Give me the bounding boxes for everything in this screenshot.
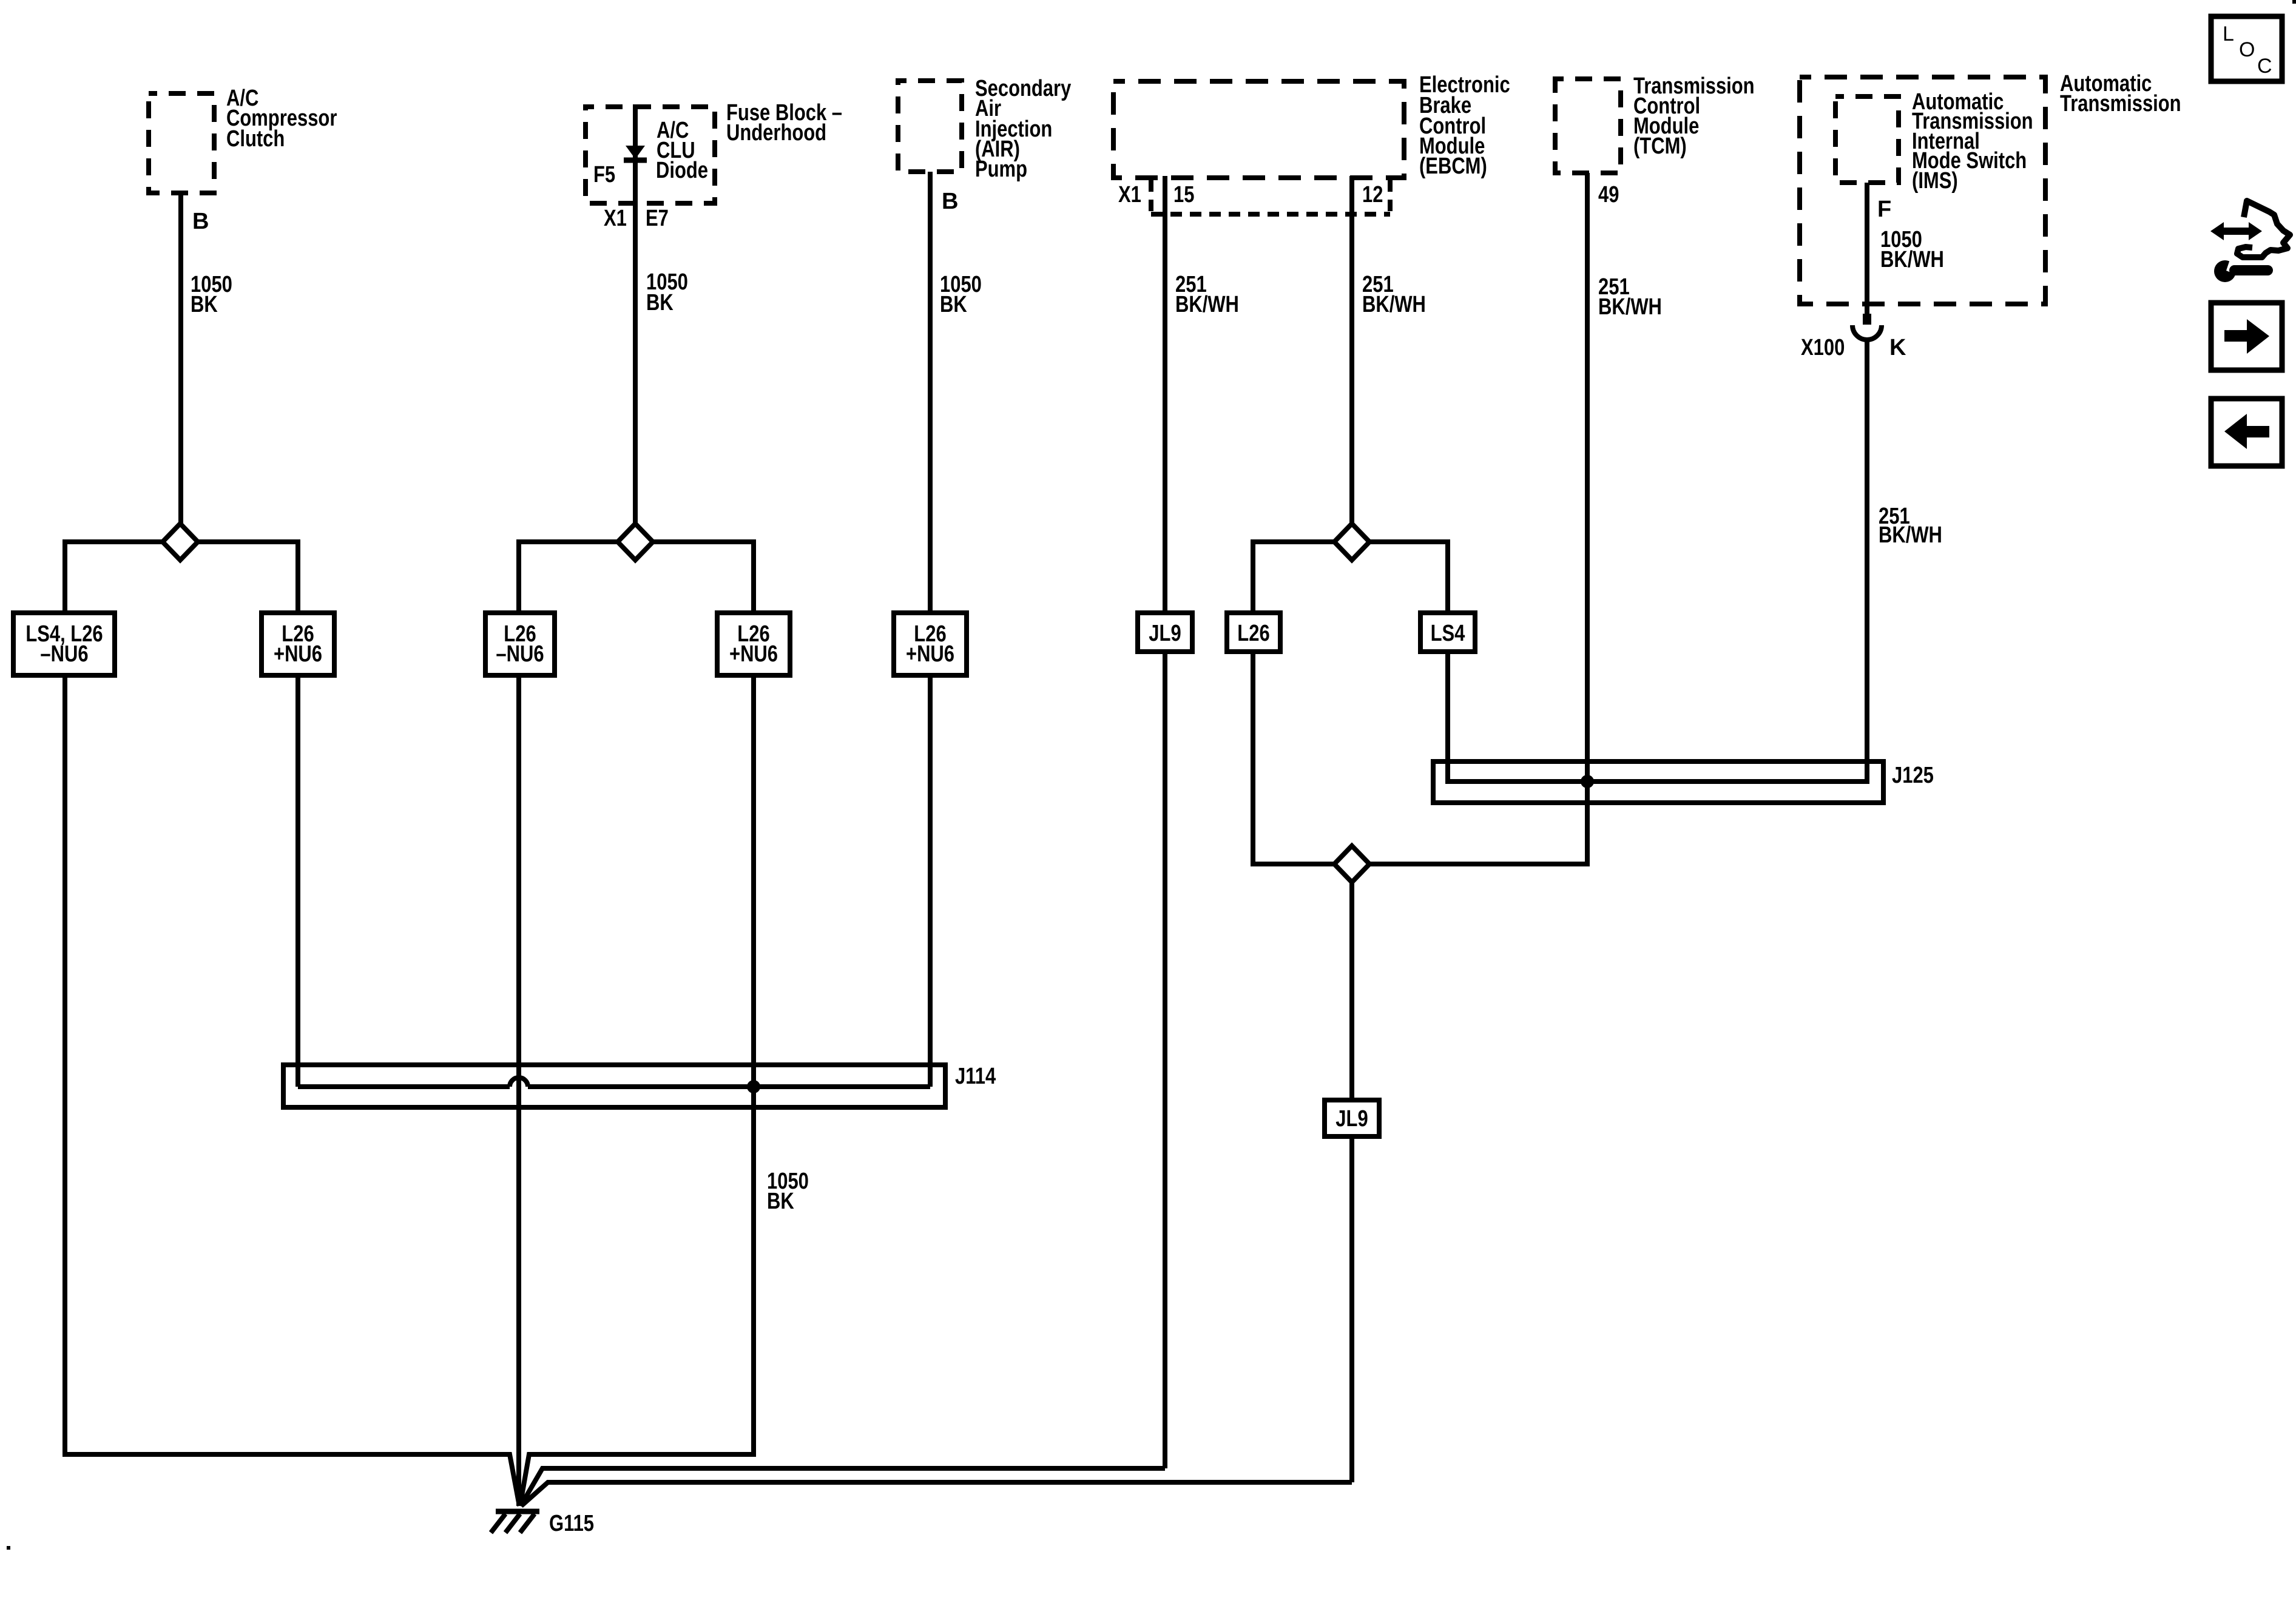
svg-text:O: O [2239, 38, 2255, 61]
svg-text:(TCM): (TCM) [1633, 133, 1687, 159]
label Automatic Transmission [2060, 71, 2181, 116]
fitment box LS4, L26 -NU6 [13, 613, 115, 675]
diode A/C CLU Diode [624, 146, 647, 160]
wire from S4 down through JL9 to bottom bus [521, 882, 1352, 1506]
svg-text:LS4: LS4 [1431, 621, 1465, 646]
svg-text:J114: J114 [955, 1064, 996, 1089]
svg-text:L26: L26 [1237, 621, 1269, 646]
svg-text:(EBCM): (EBCM) [1419, 154, 1487, 179]
svg-text:Diode: Diode [656, 158, 708, 183]
label Secondary Air Injection (AIR) Pump [975, 76, 1071, 182]
svg-text:C: C [2257, 55, 2272, 78]
wire 1050 BK from A/C Compressor Clutch pin B to splice diamond [178, 193, 183, 526]
svg-text:J125: J125 [1892, 763, 1934, 788]
component Automatic Transmission (outer dashed box) [1800, 77, 2045, 304]
svg-text:BK: BK [191, 292, 218, 317]
wire left branch of S1 [65, 542, 163, 615]
wire label 251 BK/WH (pin 15) [1175, 272, 1239, 317]
fitment box L26 +NU6 (branch 1 right) [262, 613, 334, 675]
splice diamond S3 (EBCM pin 12 branch) [1334, 524, 1369, 560]
label Automatic Transmission Internal Mode Switch (IMS) [1912, 89, 2033, 194]
svg-text:BK/WH: BK/WH [1175, 292, 1239, 317]
splice diamond S1 (A/C clutch branch) [163, 524, 198, 560]
component Secondary Air Injection (AIR) Pump (dashed box) [898, 81, 962, 172]
svg-text:BK: BK [646, 290, 674, 316]
wire left branch of S2 [519, 542, 618, 615]
svg-text:X1: X1 [1118, 182, 1141, 208]
wire right branch of S1 [198, 542, 298, 615]
wire from LS4 box down into J125 [1445, 652, 1450, 784]
svg-text:BK/WH: BK/WH [1598, 294, 1662, 320]
svg-text:+NU6: +NU6 [729, 641, 778, 667]
svg-text:15: 15 [1173, 182, 1194, 208]
wire 1050 BK from AIR pump down to J114 [928, 172, 933, 1087]
wire from L26-NU6 box through J114 (hop) to ground [516, 675, 521, 1506]
svg-text:(IMS): (IMS) [1912, 168, 1958, 194]
wire label 251 BK/WH (pin 12) [1362, 272, 1426, 317]
label Electronic Brake Control Module (EBCM) [1419, 72, 1510, 179]
svg-text:Underhood: Underhood [726, 120, 826, 146]
wire left branch of S3 [1253, 542, 1334, 615]
fitment box LS4 (EBCM branch) [1420, 613, 1475, 652]
wire label 251 BK/WH (TCM) [1598, 274, 1662, 320]
wire label 1050 BK (below J114) [767, 1169, 809, 1214]
svg-text:B: B [942, 189, 958, 214]
icon forward arrow box [2211, 303, 2282, 370]
page corner mark top right [2292, 0, 2296, 4]
svg-text:Clutch: Clutch [226, 126, 285, 152]
wire 251 BK/WH from TCM pin 49 down through J125 to diamond splice [1371, 173, 1587, 864]
splice diamond S4 [1334, 846, 1369, 882]
label Fuse Block - Underhood [726, 100, 842, 146]
svg-text:–NU6: –NU6 [496, 641, 544, 667]
fitment box L26 -NU6 [485, 613, 555, 675]
wire label 1050 BK [646, 269, 688, 316]
wire label 1050 BK [191, 272, 232, 317]
icon wiring repair (arrow and wrench) [2210, 201, 2290, 282]
connector X1 of EBCM (fine dashed) [1151, 180, 1390, 214]
svg-text:F: F [1877, 197, 1891, 222]
fitment box JL9 (lower) [1325, 1100, 1379, 1136]
component Transmission Control Module TCM (dashed box) [1555, 79, 1621, 173]
svg-text:JL9: JL9 [1149, 621, 1181, 646]
component A/C Compressor Clutch (dashed box) [149, 93, 214, 193]
wire from LS4,L26-NU6 box to bottom-left bus [65, 675, 519, 1506]
svg-text:BK/WH: BK/WH [1879, 522, 1942, 548]
splice J125 (in-line harness connector bar) [1433, 761, 1883, 803]
wire from L26 box down to diamond S4 [1253, 652, 1333, 864]
svg-text:JL9: JL9 [1335, 1106, 1368, 1132]
svg-text:BK/WH: BK/WH [1880, 247, 1944, 272]
fitment box L26 +NU6 (AIR pump wire) [894, 613, 967, 675]
svg-text:BK: BK [940, 292, 967, 317]
wire right branch of S2 [653, 542, 754, 615]
svg-text:Transmission: Transmission [2060, 91, 2181, 116]
svg-text:Pump: Pump [975, 157, 1027, 182]
svg-text:X100: X100 [1801, 335, 1845, 360]
svg-text:B: B [192, 209, 209, 234]
icon backward arrow box [2211, 399, 2282, 466]
svg-text:F5: F5 [593, 162, 615, 187]
label Transmission Control Module (TCM) [1633, 73, 1755, 159]
svg-text:BK/WH: BK/WH [1362, 292, 1426, 317]
wire from L26+NU6 box down into J114 [295, 675, 300, 1087]
wire label 1050 BK [940, 272, 982, 317]
svg-text:–NU6: –NU6 [40, 641, 88, 667]
svg-text:12: 12 [1362, 182, 1383, 208]
svg-text:E7: E7 [646, 206, 669, 231]
page mark bottom left [7, 1546, 10, 1550]
wire 251 BK/WH from EBCM pin 15 down through JL9 to ground bus [521, 176, 1165, 1506]
svg-text:L: L [2223, 22, 2234, 46]
ground G115 symbol [491, 1511, 539, 1533]
svg-text:+NU6: +NU6 [906, 641, 954, 667]
svg-text:X1: X1 [604, 206, 627, 231]
icon LOC legend box [2211, 16, 2282, 81]
svg-text:G115: G115 [549, 1511, 594, 1536]
fitment box JL9 (EBCM pin15 wire) [1138, 613, 1192, 652]
svg-text:+NU6: +NU6 [274, 641, 322, 667]
splice diamond S2 (fuse block branch) [618, 524, 653, 560]
wire 251 BK/WH from X100 down to J125 [1865, 339, 1869, 784]
label A/C CLU Diode [656, 118, 708, 183]
wire 251 BK/WH from EBCM pin 12 down to splice diamond [1349, 176, 1354, 526]
component Fuse Block - Underhood (dashed box) [586, 107, 715, 203]
wire 1050 BK/WH from IMS pin F to X100 [1865, 183, 1869, 315]
connector X100 (terminal stub and cup) [1852, 314, 1882, 340]
wire right branch of S3 [1369, 542, 1448, 615]
wire label 1050 BK/WH [1880, 227, 1944, 272]
wire label 251 BK/WH (IMS) [1879, 504, 1942, 548]
component Automatic Transmission Internal Mode Switch IMS (dashed box) [1835, 96, 1899, 183]
svg-text:49: 49 [1598, 182, 1619, 208]
wire 1050 BK from L26+NU6 box through J114 junction to bottom bus [520, 675, 754, 1506]
svg-text:BK: BK [767, 1189, 794, 1214]
label A/C Compressor Clutch [226, 86, 337, 152]
component Electronic Brake Control Module EBCM (dashed box) [1113, 81, 1404, 178]
splice J114 (in-line harness connector bar) [283, 1065, 945, 1107]
wire through fuse block (1050 BK circuit) [633, 104, 638, 526]
svg-text:K: K [1889, 335, 1906, 360]
fitment box L26 (EBCM branch) [1227, 613, 1280, 652]
fitment box L26 +NU6 (branch 2 right) [717, 613, 790, 675]
